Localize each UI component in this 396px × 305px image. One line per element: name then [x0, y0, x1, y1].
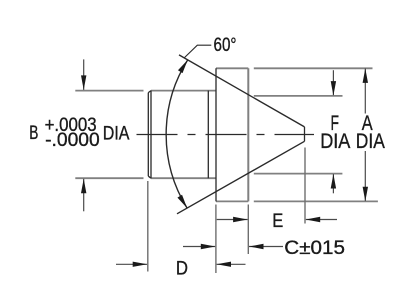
- B top arrow (down): [81, 75, 86, 90]
- C dim line right: [249, 246, 283, 248]
- C right arrow (left): [249, 244, 264, 249]
- svg-text:C±015: C±015: [284, 237, 345, 259]
- body left edge: [147, 93, 149, 177]
- A dim line lower: [364, 151, 366, 201]
- body top edge: [151, 90, 216, 92]
- dark part outline: [148, 55, 304, 214]
- svg-text:DIA: DIA: [356, 130, 385, 153]
- A bottom arrow (down): [363, 187, 368, 202]
- body chamfer top: [148, 91, 151, 93]
- A dim line upper: [364, 68, 366, 113]
- cone lower slant extended: [177, 141, 305, 214]
- D/C shared extension line: [215, 205, 217, 274]
- body chamfer line: [150, 91, 152, 179]
- centerline: [137, 134, 315, 136]
- C left arrow (right): [201, 244, 216, 249]
- D right arrow (left): [217, 262, 232, 267]
- arc arrowhead bottom: [177, 195, 187, 208]
- svg-text:DIA: DIA: [103, 123, 130, 145]
- F top dim line: [332, 70, 334, 95]
- flange top extension line: [254, 67, 373, 69]
- cone base top extension line: [254, 95, 343, 97]
- flange top edge: [216, 67, 248, 69]
- svg-text:D: D: [176, 257, 188, 279]
- F bottom arrow (up): [331, 174, 336, 189]
- flange bottom edge: [216, 200, 248, 202]
- C right extension line: [247, 205, 249, 255]
- cone upper slant extended: [179, 55, 305, 127]
- arc arrowhead top: [178, 60, 188, 73]
- 60 deg leader: [184, 45, 211, 58]
- D dim line left: [116, 263, 147, 265]
- gray extension / edge lines: [75, 68, 378, 201]
- svg-text:60°: 60°: [214, 34, 237, 56]
- cone tip flat: [304, 127, 306, 141]
- svg-text:B: B: [29, 122, 38, 144]
- B top extension line: [75, 90, 143, 92]
- E dim line left: [217, 219, 248, 221]
- angular dimension arc: [166, 60, 188, 208]
- F top arrow (down): [331, 81, 336, 96]
- B bottom extension line: [75, 177, 143, 179]
- E right extension line: [304, 148, 306, 224]
- D left extension line: [147, 181, 149, 272]
- E right arrow (left): [306, 217, 321, 222]
- arrowheads: [81, 68, 368, 267]
- E dim line right: [306, 219, 337, 221]
- E left arrow (right): [233, 217, 248, 222]
- body bottom edge: [151, 177, 216, 179]
- svg-text:DIA: DIA: [320, 130, 350, 153]
- C dim line left: [183, 246, 215, 248]
- F bottom dim line: [332, 174, 334, 193]
- body right shoulder edge: [207, 91, 209, 179]
- A top arrow (up): [363, 68, 368, 83]
- D left arrow (right): [133, 262, 148, 267]
- flange right edge / cone base: [247, 68, 249, 201]
- B bottom arrow (up): [81, 179, 86, 194]
- B top dim line: [83, 59, 85, 90]
- B bottom dim line: [83, 179, 85, 212]
- D dim line right: [217, 263, 246, 265]
- body chamfer bottom: [148, 176, 151, 178]
- svg-text:E: E: [272, 210, 283, 232]
- cone base bottom extension line: [254, 173, 343, 175]
- flange bottom extension line: [254, 200, 378, 202]
- svg-text:-.0000: -.0000: [45, 129, 100, 151]
- flange left edge: [215, 68, 217, 201]
- dimension lines: [84, 59, 366, 264]
